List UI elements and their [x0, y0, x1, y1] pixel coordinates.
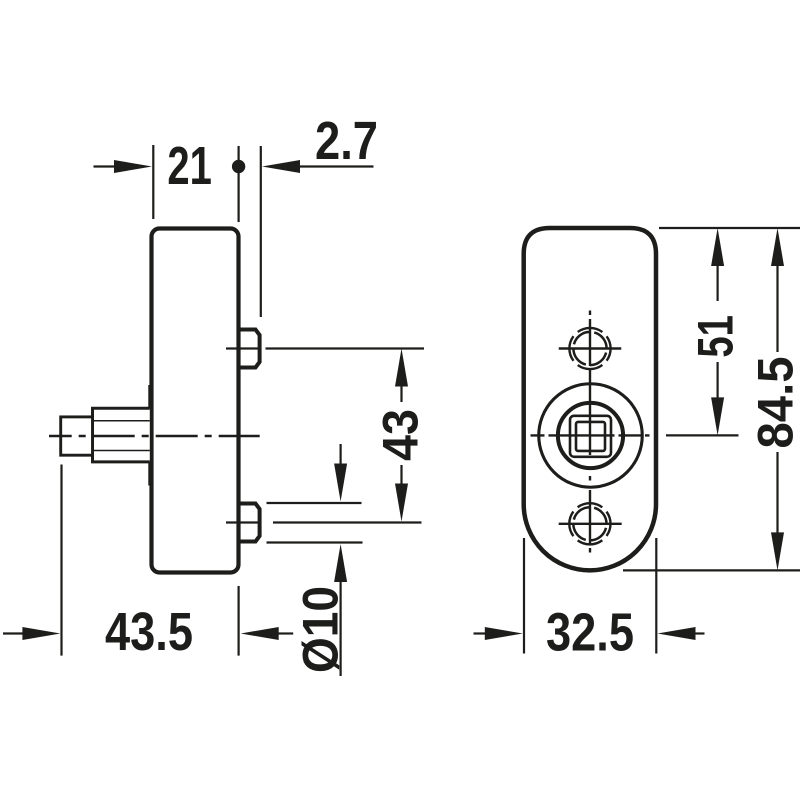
- bottom pin edge extension bottom: [267, 541, 363, 543]
- dim O10 arrow upper: [340, 444, 342, 465]
- boss outer circle: [539, 384, 643, 488]
- dim arrow 43.5 right: [241, 627, 279, 640]
- dim arrow 2.7: [262, 160, 300, 173]
- top screw thread circle (dashed): [569, 328, 610, 369]
- top pin centerline: [226, 347, 260, 349]
- extension line 32.5 right: [655, 538, 657, 654]
- top mounting pin (side view): [239, 330, 260, 368]
- center extension line (51 bottom): [666, 434, 739, 436]
- svg-text:51: 51: [687, 315, 744, 358]
- vertical centerline right view: [589, 311, 591, 553]
- svg-text:32.5: 32.5: [546, 603, 634, 662]
- hub inner line upper: [94, 420, 150, 422]
- extension line 43.5 left: [60, 465, 62, 656]
- horizontal centerline right view: [531, 434, 650, 436]
- dim arrow 32.5 right: [658, 627, 696, 640]
- top screw crosshair: [559, 347, 622, 349]
- bottom pin edge extension top: [267, 502, 362, 504]
- extension line 43.5 right: [238, 586, 240, 656]
- dim 43 vertical: [395, 349, 408, 387]
- bottom mounting pin (side view): [239, 504, 260, 542]
- spindle flange line: [148, 385, 151, 486]
- extension line pin face (2.7): [260, 146, 262, 317]
- top screw hole circle: [573, 332, 606, 365]
- svg-text:84.5: 84.5: [746, 357, 800, 449]
- extension line 32.5 left: [523, 538, 525, 654]
- square hole inner: [576, 422, 605, 451]
- dim 51: [711, 228, 724, 266]
- svg-text:43: 43: [372, 409, 429, 461]
- bottom pin centerline: [226, 521, 260, 523]
- svg-text:43.5: 43.5: [105, 603, 193, 662]
- lock body (side view): [152, 229, 239, 573]
- square hole outer: [570, 416, 611, 457]
- bottom screw thread circle (dashed): [569, 503, 610, 544]
- spindle end (square shaft): [61, 417, 93, 455]
- svg-text:Ø10: Ø10: [292, 586, 349, 673]
- hub inner line lower: [94, 450, 150, 452]
- boss middle circle: [558, 403, 623, 468]
- dim dot 21 right end: [232, 160, 245, 173]
- horizontal centerline left view: [49, 435, 260, 437]
- extension line body right face (21 / dot): [238, 146, 240, 222]
- dim arrow 32.5 left: [474, 632, 487, 634]
- face plate outline: [524, 228, 656, 570]
- bottom screw crosshair: [559, 523, 622, 525]
- dim 84.5: [771, 228, 784, 266]
- spindle hub block: [93, 408, 150, 462]
- top extension line (51 / 84.5): [659, 227, 800, 229]
- dim arrow 21 left: [94, 165, 116, 167]
- dim O10 arrow lower: [334, 544, 347, 582]
- bottom screw hole circle: [573, 507, 606, 540]
- svg-text:2.7: 2.7: [315, 112, 378, 171]
- extension line left (21): [152, 145, 154, 219]
- svg-text:21: 21: [167, 137, 212, 196]
- dim arrow 43.5 left: [3, 632, 25, 634]
- bottom extension line (84.5): [623, 569, 800, 571]
